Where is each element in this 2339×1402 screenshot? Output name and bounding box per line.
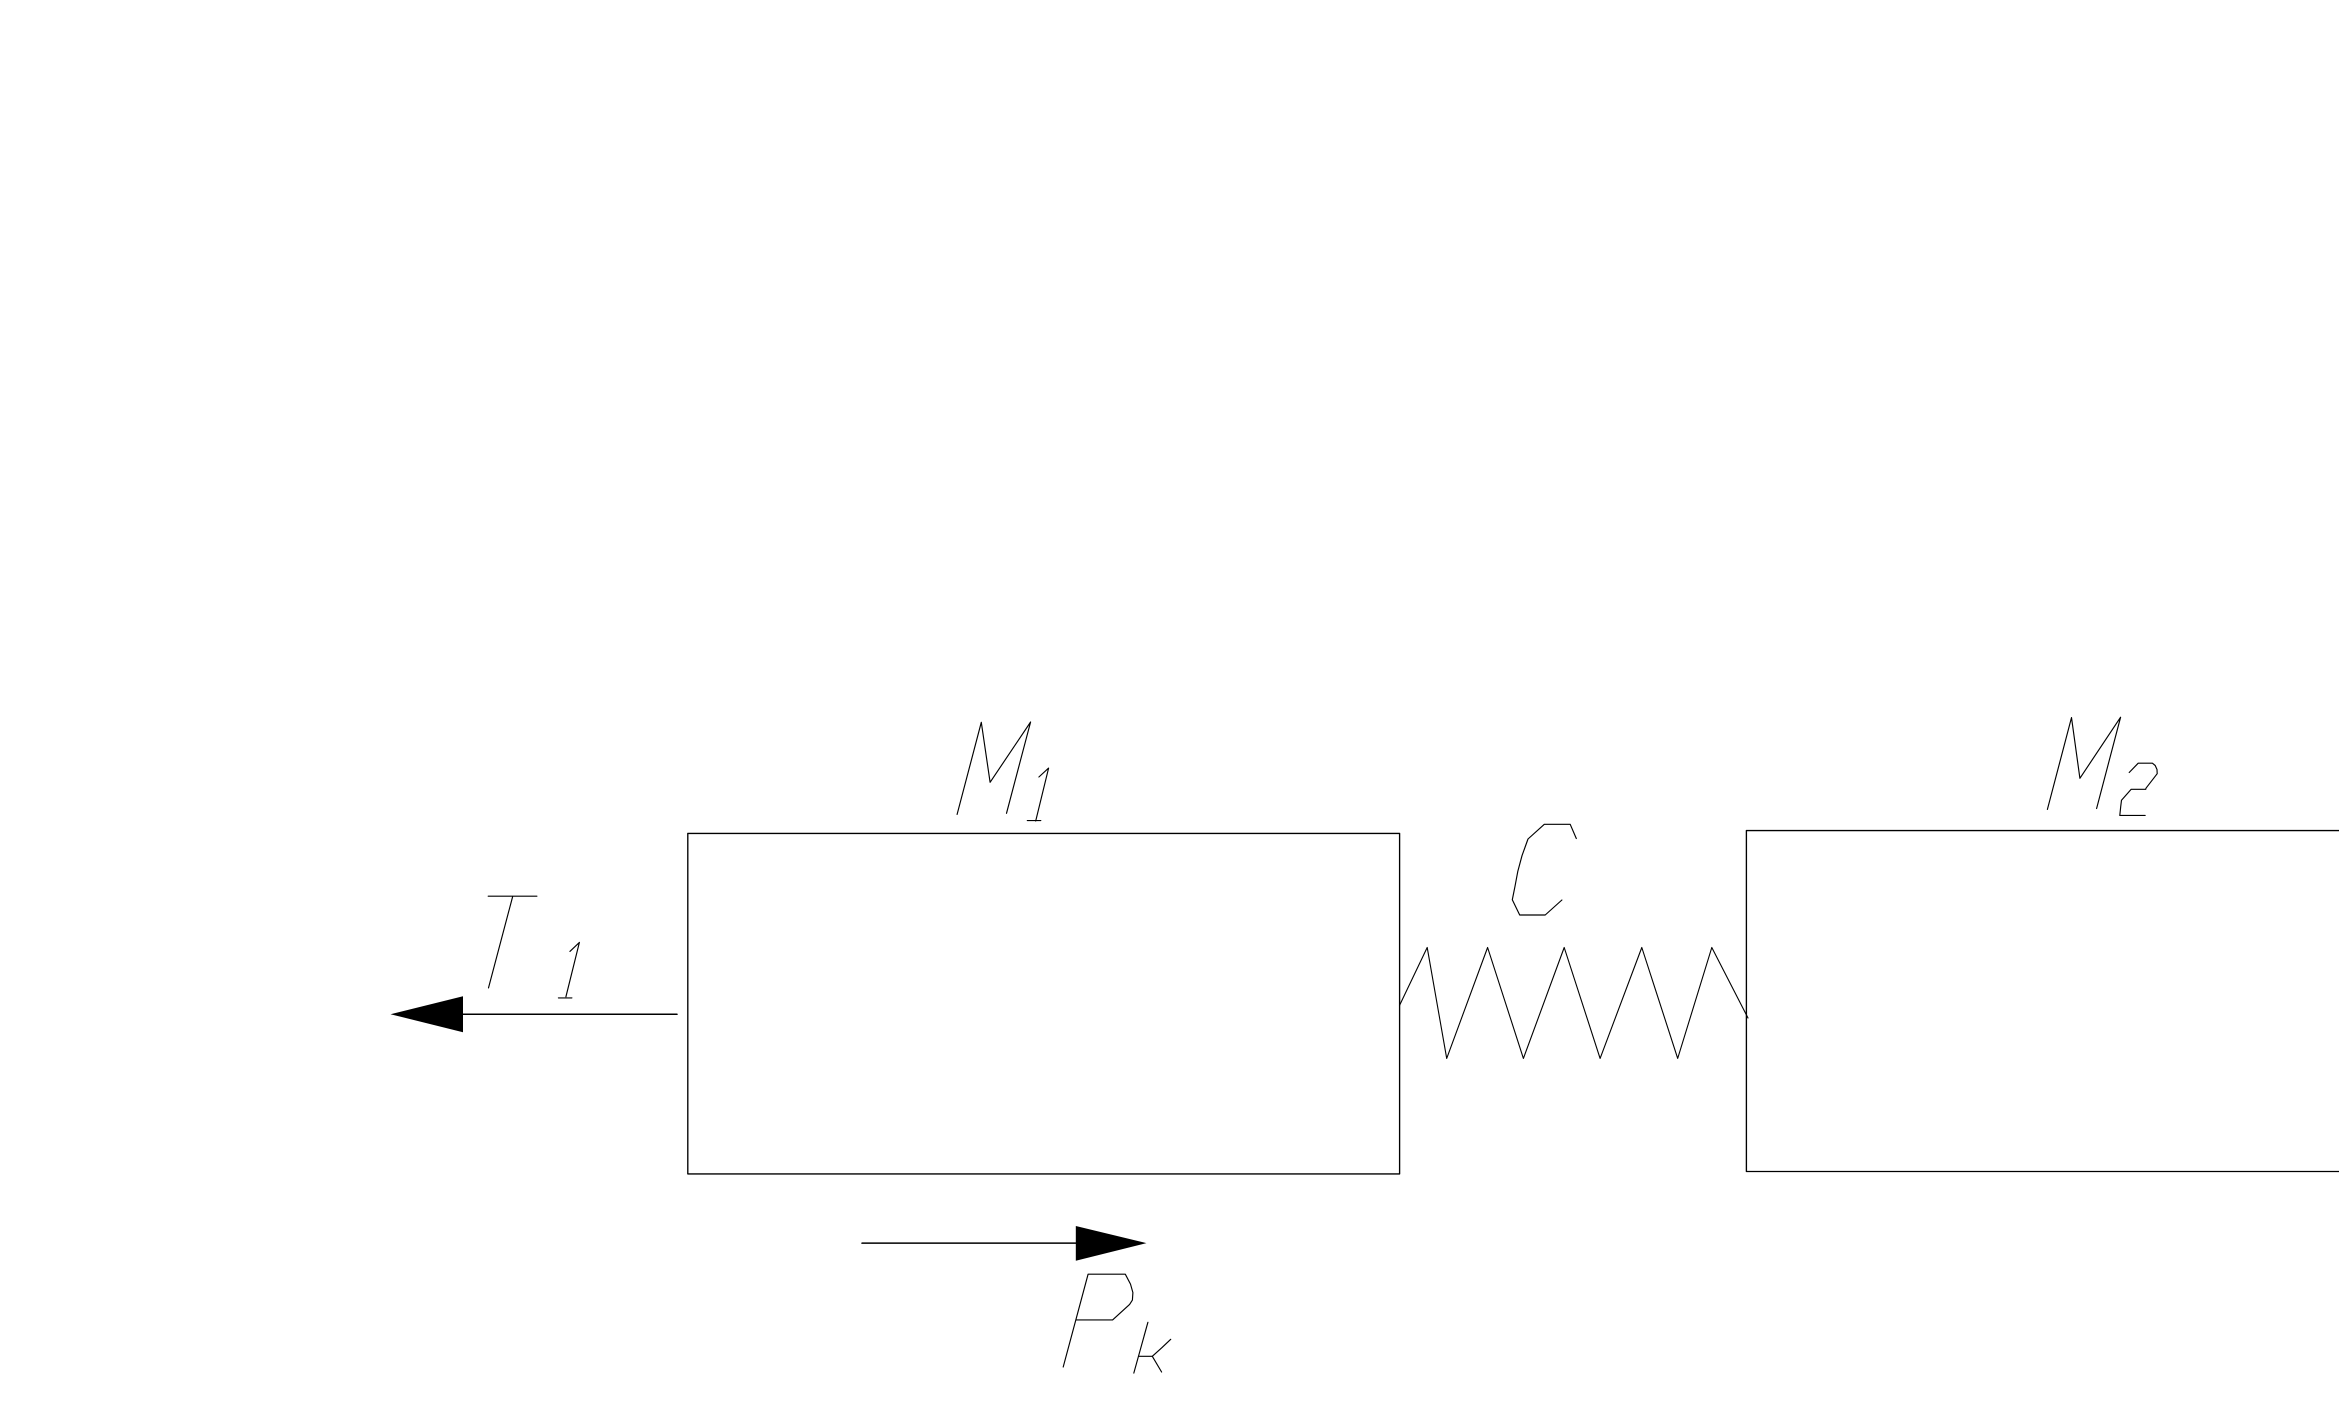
- spring C: [1400, 948, 1749, 1059]
- mass M1: [688, 833, 1400, 1174]
- force arrow Pk: [862, 1226, 1146, 1261]
- label Pk: [1063, 1274, 1171, 1373]
- label C: [1512, 824, 1576, 915]
- force arrow T1: [391, 996, 678, 1032]
- label T1: [488, 896, 579, 998]
- mass M2: [1746, 831, 2339, 1172]
- label M1: [957, 722, 1049, 821]
- label M2: [2047, 717, 2157, 815]
